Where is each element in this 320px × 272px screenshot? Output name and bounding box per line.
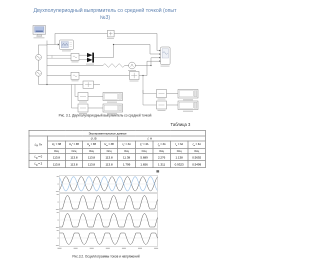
block Q1 mean	[156, 89, 166, 97]
waveform rectified current subplot 2	[59, 195, 157, 208]
waveform diode voltage subplot 4	[59, 233, 157, 244]
wire ammeter to scope input 3	[135, 58, 160, 66]
block P1 mean	[78, 92, 88, 100]
wire stub to rail B	[38, 44, 46, 46]
wire diode output to top-right net	[94, 44, 160, 57]
caption figure 3.2	[0, 255, 212, 259]
resistor Rd zigzag	[103, 64, 125, 68]
junction	[46, 84, 47, 85]
display D1	[103, 92, 122, 102]
scope block (4 inputs)	[159, 47, 170, 65]
junction	[113, 44, 114, 45]
diode cathode bar	[92, 53, 94, 63]
block V2 voltage measurement	[71, 72, 79, 79]
scope corner mark	[156, 170, 159, 172]
wire feeds to right display chains	[143, 75, 156, 104]
wire feeds to left display chains	[71, 84, 77, 107]
wire P2 to display D2	[88, 107, 103, 109]
wire load net	[47, 64, 103, 66]
title	[0, 7, 210, 21]
wire source rail	[37, 45, 39, 85]
ammeter A1	[129, 62, 136, 69]
block V1 voltage measurement	[71, 53, 79, 60]
powergui block	[33, 25, 45, 36]
display E1	[178, 89, 198, 100]
wire rail B	[46, 40, 48, 84]
waveform u2 second phase (light blue)	[59, 177, 157, 191]
circuit schematic figure 3.1 (Simulink model)	[0, 0, 210, 130]
wire bottom return net	[38, 83, 82, 85]
table label	[0, 122, 190, 127]
display D2	[103, 104, 122, 114]
wire Q1 to display E1	[166, 92, 177, 94]
block Q2 mean	[156, 101, 166, 109]
AC source E2	[36, 70, 42, 76]
wire B2 to scope input 4	[139, 61, 160, 75]
wire resistor to ammeter	[125, 64, 129, 66]
subplot 2 (id current) frame	[56, 193, 158, 210]
wire lower measure net	[47, 74, 71, 76]
block Uz current measurement	[83, 81, 93, 88]
wire to block U1	[47, 43, 58, 45]
block name smudges	[33, 37, 169, 114]
wire V2 to block B2	[79, 74, 129, 76]
oscillograms figure 3.2	[0, 168, 210, 262]
subplot 3 (i2 current) frame	[56, 211, 158, 228]
x-axis tick labels	[57, 248, 158, 249]
display E2	[178, 101, 198, 112]
data table 3	[29, 130, 206, 168]
caption figure 3.1	[0, 114, 210, 118]
waveform u2 first phase (dark)	[59, 177, 157, 191]
wires V1 to diodes	[79, 55, 87, 59]
block U1 (multimeter)	[59, 40, 73, 49]
wire Uz output	[93, 83, 99, 85]
AC source E1	[36, 54, 42, 60]
block B2 measurement	[129, 71, 138, 79]
wires to voltage measure V1	[47, 55, 71, 58]
junction	[142, 75, 143, 76]
waveform rectified current subplot 3	[59, 213, 157, 226]
measurement block M1 on top wire	[107, 30, 114, 37]
subplot 1 (u2 voltages) frame	[56, 175, 158, 192]
junction	[150, 65, 151, 66]
wire top net	[55, 33, 160, 50]
block P2 mean	[78, 104, 88, 112]
diode VD2	[87, 58, 92, 62]
subplot 4 (diode voltage) frame	[56, 229, 158, 246]
wire Q2 to display E2	[166, 104, 177, 106]
diode VD1	[87, 53, 92, 57]
wire P1 to display D1	[88, 95, 103, 97]
